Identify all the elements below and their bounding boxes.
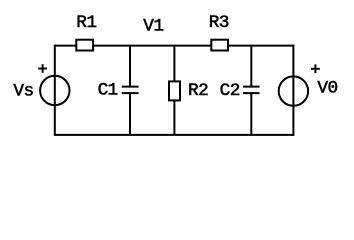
wire right rail — [292, 45, 294, 136]
resistor R2 — [169, 81, 180, 100]
plus sign Vs — [38, 68, 47, 70]
wire top rail — [55, 45, 294, 47]
capacitor C1 — [122, 86, 139, 88]
wire C1 branch — [129, 46, 131, 87]
svg-text:V1: V1 — [143, 16, 164, 36]
resistor R1 — [76, 40, 93, 51]
capacitor C2 — [243, 86, 259, 88]
wire bottom rail — [55, 134, 294, 136]
wire R2 branch — [173, 46, 175, 135]
svg-text:Vs: Vs — [13, 82, 34, 102]
wire left rail — [54, 45, 56, 136]
voltage source Vs — [40, 76, 69, 105]
svg-text:R1: R1 — [76, 13, 97, 33]
svg-text:R3: R3 — [209, 13, 230, 33]
svg-text:C2: C2 — [220, 81, 241, 101]
resistor R3 — [211, 40, 228, 51]
svg-text:R2: R2 — [188, 81, 209, 101]
plus sign V0 — [311, 68, 320, 70]
wire C2 branch — [250, 46, 252, 87]
svg-text:V0: V0 — [317, 79, 338, 99]
voltage source V0 — [279, 76, 308, 105]
svg-text:C1: C1 — [98, 80, 119, 100]
